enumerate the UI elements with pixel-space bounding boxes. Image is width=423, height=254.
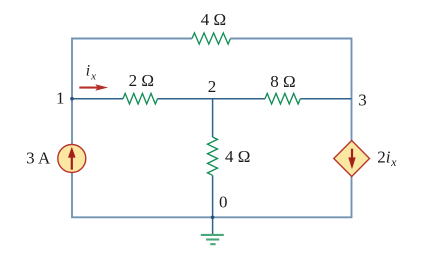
svg-text:1: 1 — [56, 89, 65, 108]
wire middle horizontal center segment — [158, 98, 266, 100]
svg-text:8 Ω: 8 Ω — [270, 72, 295, 91]
wire middle horizontal right segment — [300, 98, 351, 100]
wire ground stub — [212, 217, 214, 234]
wire vertical upper segment — [212, 99, 214, 137]
ground — [201, 235, 224, 244]
svg-text:0: 0 — [219, 192, 228, 211]
svg-text:2: 2 — [208, 77, 217, 96]
dependent source 2ix diamond — [334, 141, 370, 177]
svg-text:4 Ω: 4 Ω — [201, 10, 226, 29]
wire middle horizontal left segment — [72, 98, 123, 100]
resistor 4ohm top — [192, 33, 231, 44]
wire outer loop — [72, 39, 352, 218]
wire vertical lower segment — [212, 175, 214, 217]
resistor 8ohm — [265, 93, 300, 104]
svg-text:3 A: 3 A — [26, 148, 51, 167]
node B junction dot — [211, 216, 215, 220]
svg-text:2 Ω: 2 Ω — [129, 71, 154, 90]
svg-text:3: 3 — [358, 90, 367, 109]
current source I1 arrow — [68, 147, 76, 170]
resistor 4ohm vertical — [208, 137, 218, 175]
resistor 2ohm — [123, 93, 158, 104]
node A junction dot — [70, 97, 74, 101]
dependent source arrow — [348, 149, 355, 170]
current source I1 3A — [58, 145, 86, 173]
current arrow ix — [79, 84, 108, 90]
svg-text:4 Ω: 4 Ω — [225, 147, 250, 166]
